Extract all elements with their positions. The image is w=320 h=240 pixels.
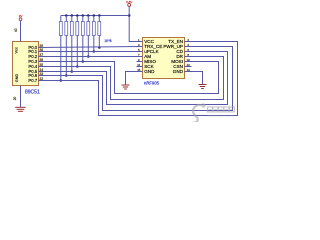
resistor R6 (pull-up of P0.2) xyxy=(87,16,90,57)
wire P0.3 around bottom to MOSI xyxy=(39,62,219,94)
U1 pin number 33 xyxy=(39,72,43,76)
U2 right stub pin 8 xyxy=(185,53,192,57)
resistor R5 (pull-up of P0.3) xyxy=(81,16,84,62)
U1 pin name P0.0 xyxy=(28,45,37,50)
junction dot R3 to P0.5 wire xyxy=(71,70,74,73)
U2 left stub pin 1 xyxy=(137,38,143,42)
IC U1 89C51 body xyxy=(13,42,39,86)
resistor R4 (pull-up of P0.4) xyxy=(76,16,79,67)
junction dot bus col 5 xyxy=(82,14,85,17)
wire P0.5 around bottom to CD xyxy=(39,52,228,105)
junction dot R8 to P0.0 wire xyxy=(98,46,101,49)
U1 pin name P0.2 xyxy=(28,54,37,59)
svg-text:3V: 3V xyxy=(19,14,23,18)
svg-text:1K*8: 1K*8 xyxy=(104,39,111,43)
svg-text:89C51: 89C51 xyxy=(25,89,40,95)
resistor R1 (pull-up of P0.7) xyxy=(59,16,62,81)
U2 left stub pin 15 xyxy=(137,68,143,72)
resistor R7 (pull-up of P0.1) xyxy=(92,16,95,52)
U1 pin name P0.3 xyxy=(28,59,37,64)
U2 left stub pin 11 xyxy=(137,63,143,67)
junction dot bus col 8 xyxy=(98,14,101,17)
svg-text:40: 40 xyxy=(14,28,18,32)
U1 pin number 39 xyxy=(39,44,43,48)
U2 right stub pin 2 xyxy=(185,38,192,42)
wire P0.1 to uPCLK xyxy=(39,51,143,53)
svg-text:nRF905: nRF905 xyxy=(144,81,160,86)
U1 pin name GND (rotated) xyxy=(15,74,19,83)
watermark logo (decorative) xyxy=(192,103,205,122)
U1 pin name Vcc (rotated) xyxy=(14,47,18,53)
resistor R2 (pull-up of P0.6) xyxy=(65,16,68,76)
wire pull-up bus xyxy=(61,15,129,17)
svg-text:www.elecfans.com: www.elecfans.com xyxy=(208,114,233,118)
power port 3.3V circle xyxy=(128,3,131,6)
U2 left stub pin 3 xyxy=(137,43,143,47)
U1 pin name P0.5 xyxy=(28,69,37,74)
IC U2 nRF905 body xyxy=(143,38,185,79)
U2 pin name PWR_UP xyxy=(163,44,183,49)
U2 right stub pin 6 xyxy=(185,48,192,52)
ground symbol right of nRF905 xyxy=(199,85,207,89)
U1 pin name P0.1 xyxy=(28,49,37,54)
junction dot R1 to P0.7 wire xyxy=(60,79,63,82)
junction dot bus col 2 xyxy=(65,14,68,17)
svg-text:14: 14 xyxy=(187,68,191,72)
junction dot bus col 7 xyxy=(93,14,96,17)
svg-text:11: 11 xyxy=(137,63,140,67)
U1 pin number 40 (rotated) xyxy=(14,28,18,32)
wire P0.4 around bottom to DR xyxy=(39,57,224,100)
wire P0.2 to AM xyxy=(39,56,143,58)
U2 pin name SCK xyxy=(144,64,154,69)
U2 pin name TRX_CE xyxy=(144,44,162,49)
U2 pin name CD xyxy=(176,49,183,54)
wire P0.6 around bottom to PWR_UP xyxy=(39,47,233,111)
U2 pin name MOSI xyxy=(171,59,183,64)
U1 pin number 34 xyxy=(39,68,43,72)
U2 pin name uPCLK xyxy=(144,49,159,54)
wire P0.7 around bottom to TX_EN xyxy=(39,42,238,116)
resistor value label 10K*8 xyxy=(104,39,111,43)
junction dot R7 to P0.1 wire xyxy=(93,50,96,53)
U1 pin number 38 xyxy=(39,48,43,52)
ground symbol left of nRF905 xyxy=(122,85,130,89)
U1 pin number 35 xyxy=(39,63,43,67)
U1 pin name P0.6 xyxy=(28,73,37,78)
svg-text:GND: GND xyxy=(15,74,19,83)
U2 reference label nRF905 xyxy=(144,81,160,86)
U2 right stub pin 12 xyxy=(185,63,192,67)
wire 3.3V rail down to VCC of U2 xyxy=(129,6,142,41)
svg-text:12: 12 xyxy=(187,63,191,67)
junction dot R5 to P0.3 wire xyxy=(82,60,85,63)
U2 pin name CSN xyxy=(173,64,183,69)
U2 pin name VCC xyxy=(144,39,154,44)
svg-text:GND: GND xyxy=(144,69,155,74)
U1 pin number 32 xyxy=(39,77,43,81)
junction dot 3.3V / pull-up bus xyxy=(128,14,131,17)
junction dot R4 to P0.4 wire xyxy=(76,65,79,68)
U2 right stub pin 4 xyxy=(185,43,192,47)
U2 left stub pin 5 xyxy=(137,48,143,52)
junction dot bus col 4 xyxy=(76,14,79,17)
power port 3.3V label xyxy=(126,0,133,4)
U2 right stub pin 10 xyxy=(185,58,192,62)
U2 right stub pin 14 xyxy=(185,68,192,72)
U2 pin name TX_EN xyxy=(168,39,183,44)
svg-text:20: 20 xyxy=(13,97,17,101)
U2 pin name GND xyxy=(144,69,155,74)
wire P0.0 to TRX_CE xyxy=(39,47,143,48)
junction dot bus col 6 xyxy=(87,14,90,17)
power port 3V circle xyxy=(19,18,22,21)
U1 pin name P0.4 xyxy=(28,64,37,69)
svg-text:Vcc: Vcc xyxy=(14,47,18,53)
watermark text (decorative) xyxy=(208,107,235,118)
wire 3V to U1 pin 40 xyxy=(20,21,22,42)
U2 pin name MISO xyxy=(144,59,156,64)
power port 3V label xyxy=(19,14,23,18)
junction dot R6 to P0.2 wire xyxy=(87,55,90,58)
svg-text:P0.7: P0.7 xyxy=(28,78,37,83)
U1 pin number 36 xyxy=(39,58,43,62)
U2 pin name DR xyxy=(176,54,183,59)
U1 reference label 89C51 xyxy=(25,89,40,95)
resistor R3 (pull-up of P0.5) xyxy=(70,16,73,72)
svg-text:GND: GND xyxy=(173,69,184,74)
wire U2 right GND to ground xyxy=(192,72,203,85)
U1 pin name P0.7 xyxy=(28,78,37,83)
resistor R8 (pull-up of P0.0) xyxy=(98,16,101,48)
junction dot R2 to P0.6 wire xyxy=(65,74,68,77)
U2 left stub pin 9 xyxy=(137,58,143,62)
U2 pin name AM xyxy=(144,54,151,59)
wire U2 left GND to ground xyxy=(126,72,143,86)
wire U1 pin 20 to ground xyxy=(20,86,22,108)
junction dot bus col 3 xyxy=(71,14,74,17)
U2 left stub pin 7 xyxy=(137,53,143,57)
U2 pin name GND xyxy=(173,69,184,74)
U1 pin number 20 (rotated) xyxy=(13,97,17,101)
U1 pin number 37 xyxy=(39,53,43,57)
ground symbol below U1 xyxy=(15,107,26,111)
